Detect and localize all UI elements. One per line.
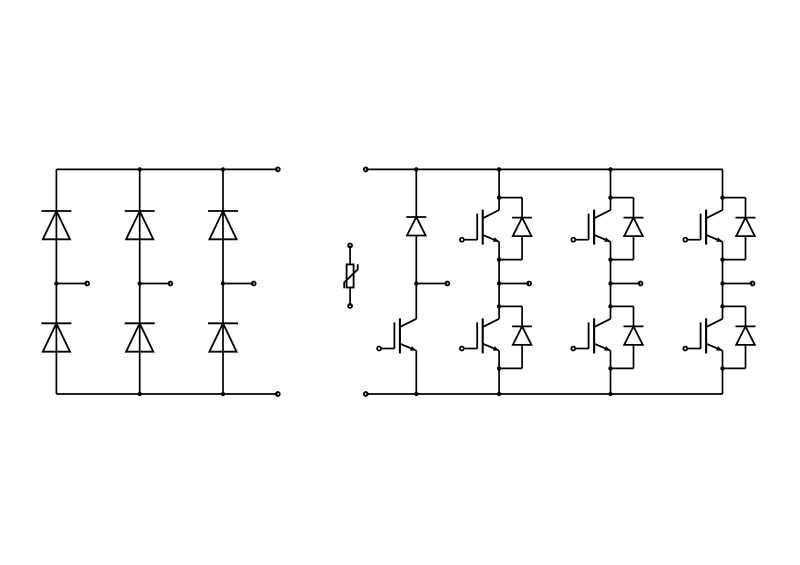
wire: rectifier top DC+ bus: [56, 168, 277, 170]
diode D8 (free-wheel for Q1): [499, 198, 532, 260]
diode D12 (free-wheel for Q5): [723, 198, 756, 260]
wire: brake leg upper segment: [415, 169, 417, 217]
diode D6 (rectifier phase 3 lower): [208, 322, 238, 324]
junction: Q5 emitter node: [720, 257, 724, 261]
wire: brake leg middle segment: [415, 236, 417, 284]
junction: rectifier phase 1 AC node: [54, 281, 58, 285]
junction: Q6 emitter node: [720, 366, 724, 370]
thermistor RT1 body: [347, 264, 354, 287]
wire: phase V output stub: [611, 283, 641, 285]
junction: Q2 collector node: [497, 304, 501, 308]
node inverter DC+ terminal: [364, 167, 368, 171]
node inverter DC- terminal: [364, 392, 368, 396]
junction: Q6 collector node: [720, 304, 724, 308]
wire: rectifier phase 1 leg: [55, 169, 57, 394]
node DC- terminal of rectifier: [276, 392, 280, 396]
thermistor RT1 top terminal node: [348, 244, 352, 248]
diode D9 (free-wheel for Q2): [499, 306, 532, 368]
junction: Q1 collector node: [497, 195, 501, 199]
transistor Q4 (phase V low-side IGBT): [571, 306, 610, 368]
transistor Q3 (phase V high-side IGBT): [571, 198, 610, 260]
diode D13 (free-wheel for Q6): [723, 306, 756, 368]
wire: phase W bottom leg segment: [722, 368, 724, 394]
junction: phase W output node: [720, 281, 724, 285]
wire: AC input stub L2: [140, 283, 171, 285]
junction: Q3 emitter node: [608, 257, 612, 261]
diode D4 (rectifier phase 2 lower): [125, 322, 155, 324]
junction: phase V leg on DC+ bus: [608, 167, 612, 171]
wire: brake emitter to DC- bus: [415, 368, 417, 394]
node W output terminal: [751, 282, 755, 286]
junction: Q2 emitter node: [497, 366, 501, 370]
wire: AC input stub L3: [223, 283, 254, 285]
thermistor RT1 bottom terminal node: [348, 304, 352, 308]
wire: phase V bottom leg segment: [610, 368, 612, 394]
wire: inverter DC+ bus: [366, 168, 723, 170]
junction: rectifier phase 3 AC node: [221, 281, 225, 285]
junction: rectifier phase 2 on DC+ bus: [138, 167, 142, 171]
junction: phase U output node: [497, 281, 501, 285]
junction: rectifier phase 3 on DC- bus: [221, 392, 225, 396]
wire: AC input stub L1: [56, 283, 87, 285]
wire: rectifier phase 2 leg: [139, 169, 141, 394]
wire: thermistor top lead: [349, 246, 351, 265]
wire: rectifier phase 3 leg: [222, 169, 224, 394]
node V output terminal: [639, 282, 643, 286]
junction: rectifier phase 2 on DC- bus: [138, 392, 142, 396]
junction: rectifier phase 2 AC node: [138, 281, 142, 285]
wire: phase U mid lower segment: [498, 284, 500, 307]
junction: rectifier phase 3 on DC+ bus: [221, 167, 225, 171]
wire: phase W output stub: [723, 283, 753, 285]
node L1 AC input terminal: [85, 282, 89, 286]
wire: phase U output stub: [499, 283, 529, 285]
wire: phase V mid upper segment: [610, 260, 612, 284]
transistor Q1 (phase U high-side IGBT): [460, 198, 499, 260]
junction: Q1 emitter node: [497, 257, 501, 261]
junction: brake chopper output node: [414, 281, 418, 285]
transistor Q5 (phase W high-side IGBT): [683, 198, 722, 260]
wire: phase V mid lower segment: [610, 284, 612, 307]
wire: phase U bottom leg segment: [498, 368, 500, 394]
diode D2 (rectifier phase 1 lower): [41, 322, 71, 324]
diode D10 (free-wheel for Q3): [611, 198, 644, 260]
diode D1 (rectifier phase 1 upper): [41, 210, 71, 212]
thermistor RT1 diagonal strike: [344, 264, 358, 288]
node L2 AC input terminal: [168, 282, 172, 286]
transistor Q6 (phase W low-side IGBT): [683, 306, 722, 368]
node brake resistor terminal: [445, 282, 449, 286]
diode D7 (brake free-wheel): [406, 216, 426, 218]
junction: Q4 emitter node: [608, 366, 612, 370]
diode D11 (free-wheel for Q4): [611, 306, 644, 368]
node U output terminal: [527, 282, 531, 286]
node DC+ terminal of rectifier: [276, 167, 280, 171]
junction: phase U leg on DC+ bus: [497, 167, 501, 171]
wire: phase V top leg segment: [610, 169, 612, 197]
junction: Q3 collector node: [608, 195, 612, 199]
junction: phase U leg on DC- bus: [497, 392, 501, 396]
diode D3 (rectifier phase 2 upper): [125, 210, 155, 212]
diode D5 (rectifier phase 3 upper): [208, 210, 238, 212]
wire: phase U mid upper segment: [498, 260, 500, 284]
wire: phase W mid lower segment: [722, 284, 724, 307]
wire: phase U top leg segment: [498, 169, 500, 197]
junction: phase V leg on DC- bus: [608, 392, 612, 396]
wire: phase W top leg segment: [722, 169, 724, 197]
transistor Q7 (brake IGBT): [377, 284, 416, 369]
junction: Q4 collector node: [608, 304, 612, 308]
wire: brake output stub: [416, 283, 447, 285]
junction: phase V output node: [608, 281, 612, 285]
wire: phase W mid upper segment: [722, 260, 724, 284]
junction: brake leg on DC- bus: [414, 392, 418, 396]
wire: rectifier bottom DC- bus: [56, 393, 277, 395]
junction: Q5 collector node: [720, 195, 724, 199]
node L3 AC input terminal: [252, 282, 256, 286]
transistor Q2 (phase U low-side IGBT): [460, 306, 499, 368]
wire: thermistor bottom lead: [349, 288, 351, 306]
junction: brake leg on DC+ bus: [414, 167, 418, 171]
wire: inverter DC- bus: [366, 393, 723, 395]
